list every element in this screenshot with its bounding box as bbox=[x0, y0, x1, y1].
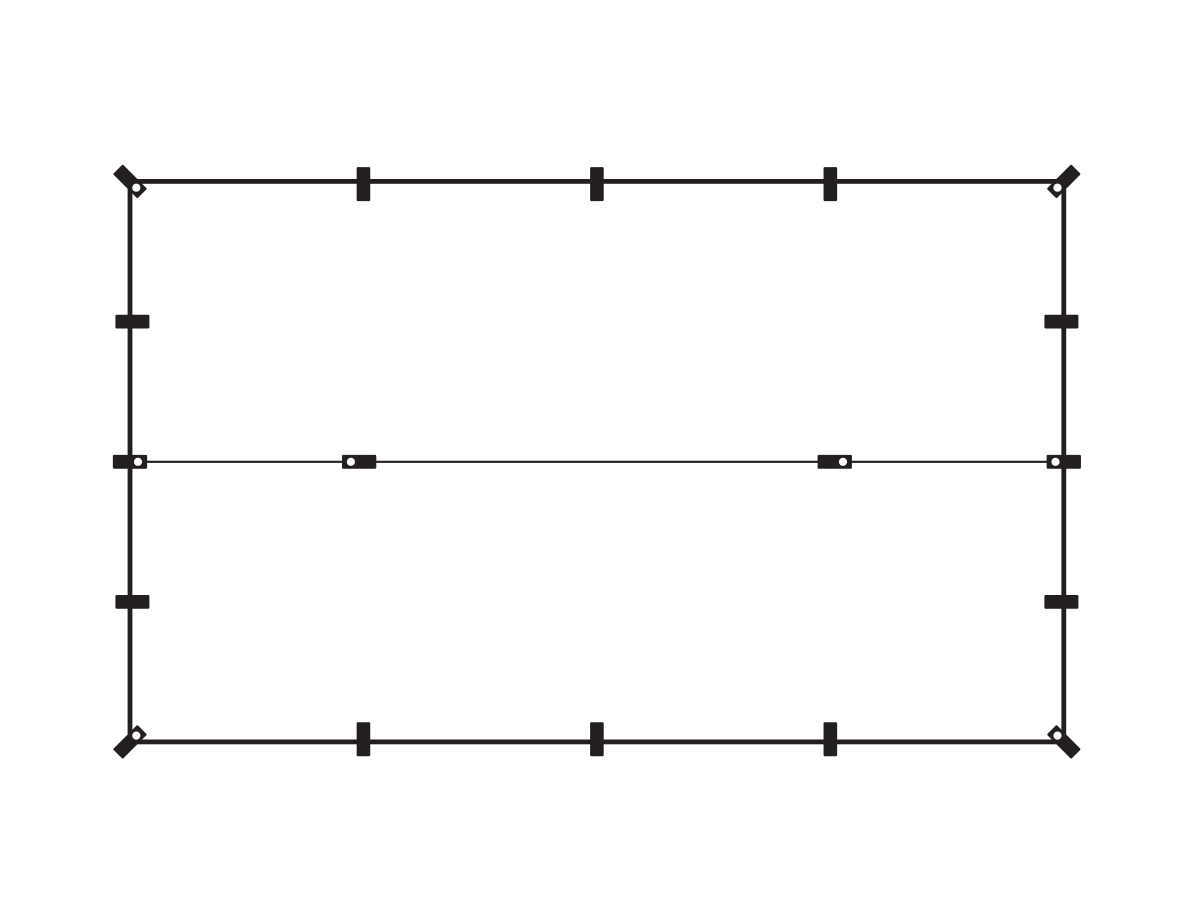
ridge tab at right edge bbox=[1047, 455, 1081, 469]
corner tab bottom-right bbox=[1047, 725, 1081, 759]
bottom edge tab 1 bbox=[357, 722, 371, 756]
ridge line (center line) bbox=[131, 461, 1063, 463]
top edge tab 1 bbox=[357, 167, 371, 201]
top edge tab 3 bbox=[824, 167, 838, 201]
right edge tab upper bbox=[1044, 315, 1078, 329]
grommet of ridge tab interior left bbox=[347, 458, 355, 466]
grommet bottom-left bbox=[132, 732, 140, 740]
grommet of ridge tab at left edge bbox=[134, 458, 142, 466]
tarp outline rectangle bbox=[130, 181, 1064, 742]
corner tab top-right bbox=[1047, 164, 1081, 198]
corner tab bottom-left bbox=[113, 725, 147, 759]
grommet top-right bbox=[1053, 184, 1061, 192]
bottom edge tab 2 bbox=[590, 722, 604, 756]
grommet of ridge tab interior right bbox=[839, 458, 847, 466]
grommet bottom-right bbox=[1053, 732, 1061, 740]
bottom edge tab 3 bbox=[824, 722, 838, 756]
ridge tab at left edge bbox=[113, 455, 147, 469]
ridge tab interior right bbox=[818, 455, 852, 469]
ridge tab interior left bbox=[342, 455, 376, 469]
top edge tab 2 bbox=[590, 167, 604, 201]
right edge tab lower bbox=[1044, 595, 1078, 609]
corner tab top-left bbox=[113, 164, 147, 198]
grommet top-left bbox=[132, 184, 140, 192]
left edge tab lower bbox=[115, 595, 149, 609]
left edge tab upper bbox=[115, 315, 149, 329]
grommet of ridge tab at right edge bbox=[1051, 458, 1059, 466]
